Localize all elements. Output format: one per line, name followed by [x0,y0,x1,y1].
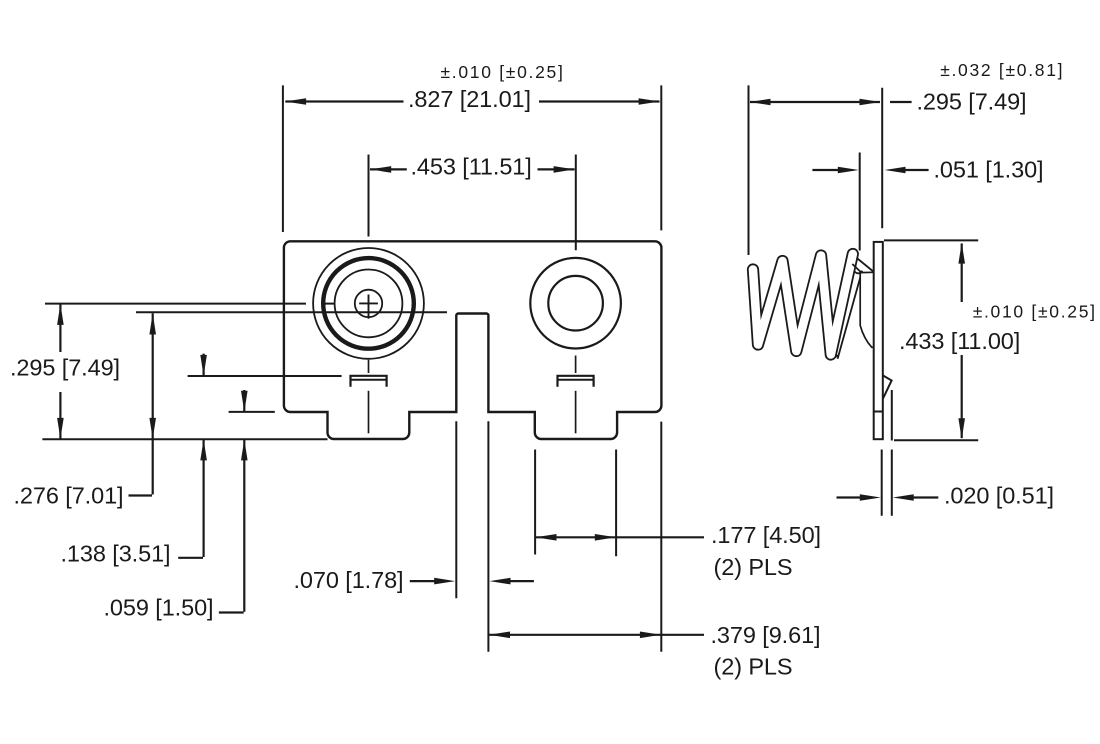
side view plate right face extension line [881,88,883,229]
svg-text:±.010 [±0.25]: ±.010 [±0.25] [973,302,1097,322]
dimension .059 [1.50] line [243,390,245,412]
retention barb [883,375,892,398]
extension line left edge .827 [282,85,284,232]
dimension .295 [7.49] side line [750,101,880,103]
svg-text:.138 [3.51]: .138 [3.51] [61,541,171,567]
plate right edge extension line [660,422,662,652]
extension line hole center level [45,303,306,305]
dimension .020 [0.51] arrows [837,496,861,498]
svg-text:(2) PLS: (2) PLS [714,654,793,680]
plate/tab boundary line [874,411,883,413]
svg-text:.295 [7.49]: .295 [7.49] [917,89,1027,115]
side view spring left extension line [748,85,750,255]
barb apex extension line [891,390,893,441]
left hole thick ring [323,258,414,349]
plate face extension line below [881,450,883,516]
extension line right hole center .453 [575,155,577,251]
left hole small circle [355,290,382,317]
svg-text:.070 [1.78]: .070 [1.78] [294,567,404,593]
svg-text:±.010 [±0.25]: ±.010 [±0.25] [441,62,565,82]
extension line dimple level [188,375,342,377]
dimension .051 [1.30] arrows [812,169,838,171]
dimension .070 [1.78] leader [410,580,435,582]
spring end connector lines [857,258,874,272]
dimension .433 [11.00] line [961,244,963,303]
tab right extension line [615,450,617,557]
svg-text:±.032 [±0.81]: ±.032 [±0.81] [940,60,1064,80]
extension line slot top level [136,311,447,313]
extension line plate bottom edge level [229,411,275,413]
spring face extension line [859,153,861,251]
dimension .827 [21.01] line [285,100,403,102]
right contact dimple [558,376,594,387]
svg-text:.295 [7.49]: .295 [7.49] [10,355,120,381]
tab left extension line [534,450,536,555]
svg-text:.020 [0.51]: .020 [0.51] [944,483,1054,509]
dimension .379 [9.61] line [489,634,704,636]
dimension .177 [4.50] line [536,536,705,538]
spring coil zigzag [753,254,853,355]
left hole centerline below [368,360,370,373]
extension line left hole center .453 [368,155,370,237]
svg-text:(2) PLS: (2) PLS [714,554,793,580]
svg-text:.379 [9.61]: .379 [9.61] [711,622,821,648]
right hole inner circle [548,276,603,331]
extension line right edge .827 [660,85,662,230]
.433 bottom extension line [894,439,978,441]
svg-text:.177 [4.50]: .177 [4.50] [711,522,821,548]
svg-text:.453 [11.51]: .453 [11.51] [411,154,532,180]
slot right extension line [487,421,489,652]
svg-text:.276 [7.01]: .276 [7.01] [14,483,124,509]
front view plate outline [284,241,662,439]
left hole middle circle [335,270,403,338]
.433 top extension line [884,239,978,241]
svg-text:.827 [21.01]: .827 [21.01] [408,86,531,112]
svg-text:.059 [1.50]: .059 [1.50] [104,595,214,621]
slot left extension line [455,421,457,598]
svg-text:.433 [11.00]: .433 [11.00] [899,328,1020,354]
right hole outer circle [530,258,621,349]
left hole center cross [359,302,378,304]
spring rear end strand [829,268,862,358]
dimension .276 [7.01] line [152,313,154,494]
right hole centerline below [575,356,577,374]
dimension .295 [7.49] line [59,304,61,352]
extension line bottom level [42,438,327,440]
dimension .138 [3.51] line [203,354,205,376]
dimension .453 [11.51] line [370,168,407,170]
spring flattened end coil [860,272,874,347]
left hole outer circle [313,248,424,359]
svg-text:.051 [1.30]: .051 [1.30] [934,157,1044,183]
left contact dimple [351,376,387,387]
side view plate [874,242,883,439]
